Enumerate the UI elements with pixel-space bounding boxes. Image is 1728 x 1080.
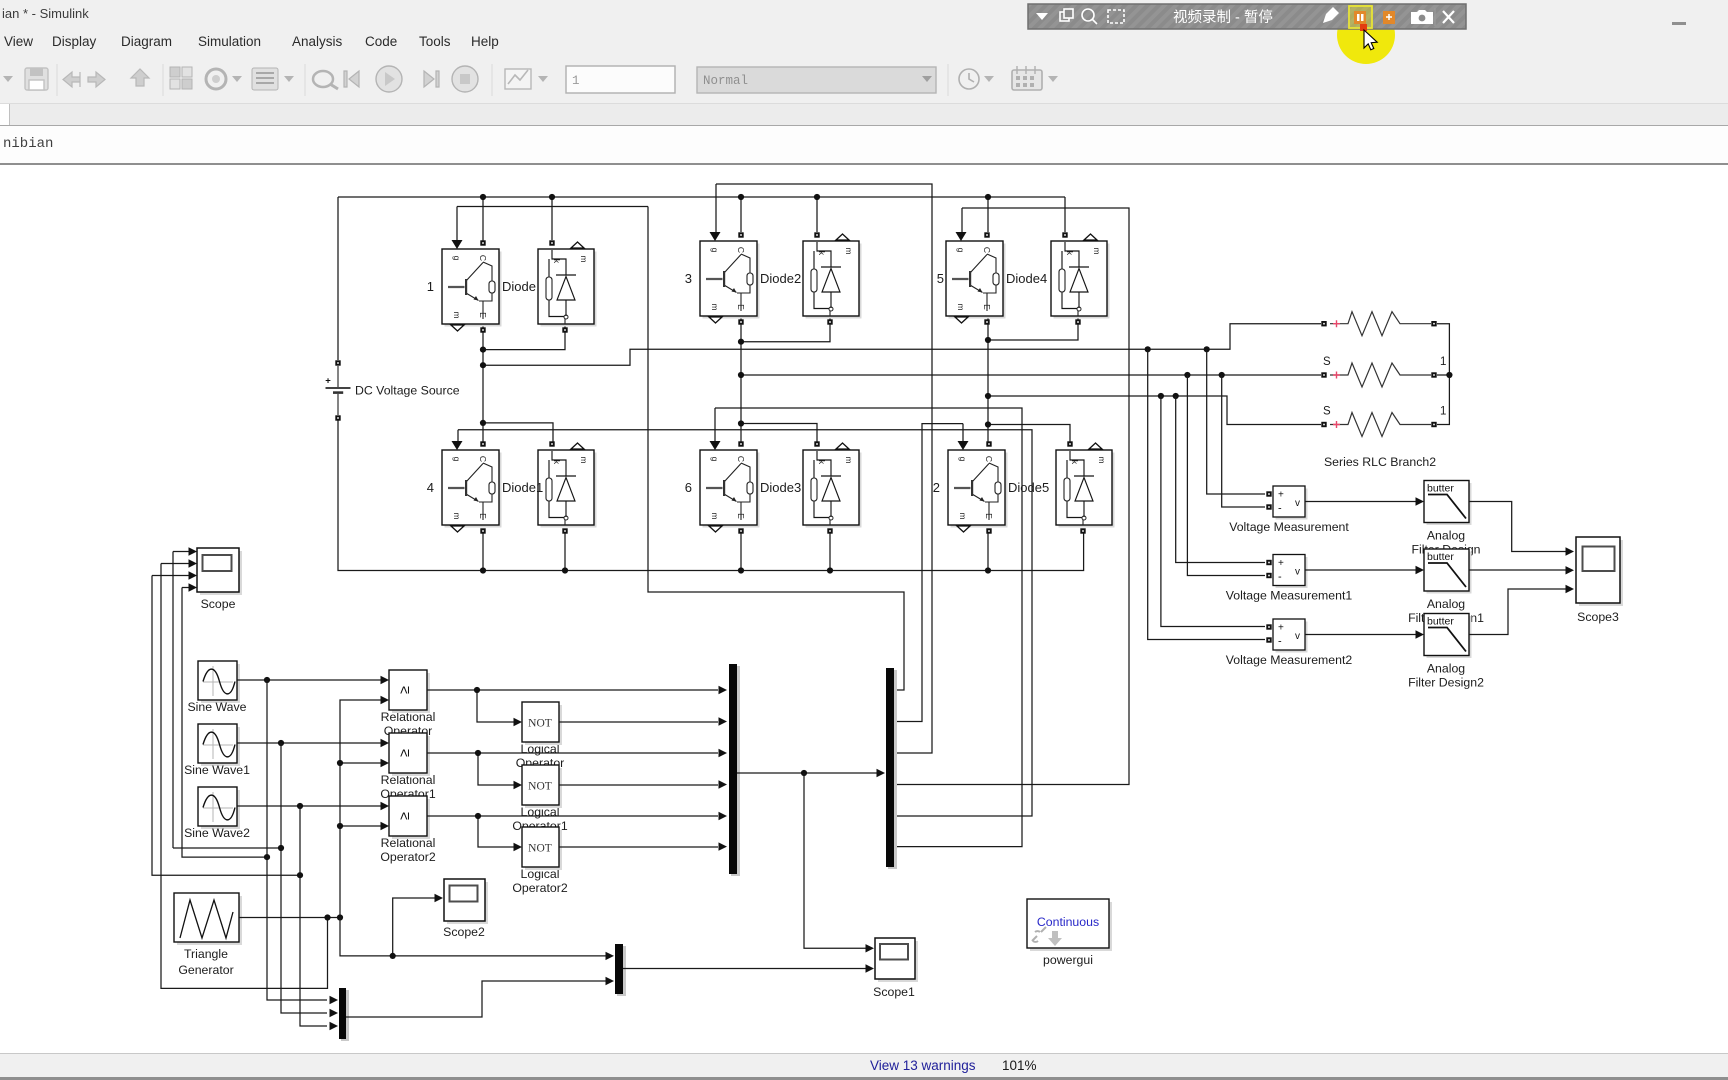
wire: Scope in4 from Sine Wave tap (182, 588, 267, 858)
wire: NOT1 out to mux in2 (559, 721, 718, 723)
wire: Diode k stub (551, 197, 553, 240)
wire: IGBT6 E drop (740, 532, 742, 571)
svg-text:Voltage Measurement1: Voltage Measurement1 (1226, 589, 1353, 603)
wire: bottom mux to center mux in2 (346, 981, 610, 1017)
diode block Diode4 (1006, 232, 1110, 324)
wire: filter1 to Scope3 in1 (1469, 502, 1568, 552)
svg-text:Diode2: Diode2 (760, 271, 801, 286)
mux bar (2-input, center) (617, 946, 626, 996)
svg-text:Diode3: Diode3 (760, 480, 801, 495)
block Voltage Measurement (1266, 486, 1307, 520)
logic gate Logical Operator (522, 702, 562, 745)
mux bar (6-input) (731, 666, 740, 876)
svg-text:powergui: powergui (1043, 953, 1093, 967)
svg-text:Continuous: Continuous (1037, 915, 1099, 929)
svg-text:Scope3: Scope3 (1577, 610, 1619, 624)
svg-text:Scope2: Scope2 (443, 925, 485, 939)
scope Scope2 (444, 879, 488, 924)
source block Sine Wave2 (198, 787, 240, 829)
svg-text:NOT: NOT (528, 843, 552, 855)
wire: IGBT3 C stub (740, 197, 742, 232)
wire: phase B column (IGBT3 E to IGBT6 C) (740, 317, 742, 443)
wire: gate bus for IGBT3 (demux out3 riser) (716, 184, 932, 753)
junctions NOT branches (474, 687, 481, 819)
wire: VM1 minus tap (1222, 375, 1265, 507)
svg-text:≥: ≥ (397, 749, 413, 757)
wire: VM1 to Analog Filter Design (1305, 501, 1418, 503)
wire: Scope in3 from Sine Wave2 tap (152, 576, 300, 876)
transistor U2 IGBT 2 (933, 441, 1008, 534)
wire: Scope in3 stub (152, 575, 191, 577)
svg-text:Operator2: Operator2 (380, 850, 436, 864)
wire: Triangle to center mux in1 (340, 918, 610, 956)
wire: mux to demux (737, 772, 882, 774)
wire: phase B to Series RLC R2 (741, 374, 1321, 376)
source block Sine Wave (198, 661, 240, 703)
wire: Scope in2 from Triangle tap (161, 564, 328, 989)
wire: Sine Wave2 branch to bottom mux in3 (300, 806, 327, 1026)
svg-text:≥: ≥ (397, 812, 413, 820)
wire: Sine Wave1 branch to bottom mux in2 (281, 743, 327, 1013)
svg-text:Scope1: Scope1 (873, 985, 915, 999)
wire: IGBT5 C stub (987, 197, 989, 232)
transistor U3 IGBT 3 (685, 232, 760, 325)
wire: Relational Operator out to mux in1 (427, 689, 718, 691)
diode block Diode5 (1008, 441, 1115, 533)
wire: filter2 to Scope3 in2 (1469, 569, 1568, 571)
svg-text:S: S (1323, 356, 1331, 368)
wire: RLC right neutral tie (1437, 324, 1449, 425)
block Relational Operator2 (389, 796, 430, 839)
wire: VM3 to Analog Filter Design2 (1305, 634, 1418, 636)
junction RLC neutral (1446, 372, 1452, 378)
wire: phase C column (IGBT5 E to IGBT2 C) (987, 317, 989, 443)
wire: IGBT1 gate feed riser from demux out1 (648, 207, 904, 691)
diode block Diode2 (760, 232, 862, 324)
svg-text:Sine Wave: Sine Wave (187, 700, 246, 714)
wire: branch to NOT2 (478, 753, 516, 785)
block Relational Operator (389, 670, 430, 713)
wire: NOT3 out to mux in6 (559, 846, 718, 848)
wire: Sine Wave branch to bottom mux in1 (267, 680, 327, 1000)
wire: phase A to Series RLC R1 (483, 324, 1321, 366)
wire: VM2 minus tap (1187, 375, 1265, 576)
wire: Diode3 a drop (bottom) (829, 532, 831, 571)
DC Voltage Source (325, 360, 460, 420)
wire: IGBT4 gate feed from demux out5 (458, 430, 1032, 816)
svg-text:Diode1: Diode1 (502, 480, 543, 495)
wire: R2 right stub (1437, 374, 1449, 376)
svg-text:1: 1 (427, 279, 434, 294)
wire: NOT2 out to mux in4 (559, 784, 718, 786)
wire: branch to NOT1 (477, 690, 516, 722)
svg-text:Scope: Scope (201, 597, 236, 611)
wire: Triangle to Relational in2 risers (340, 700, 385, 918)
logic gate Logical Operator2 (522, 827, 562, 870)
wire: Relational Operator2 out to mux in5 (427, 815, 718, 817)
wire: IGBT4 E drop (482, 532, 484, 571)
wire: branch to NOT3 (478, 816, 516, 847)
junctions phase B (738, 339, 1225, 427)
block Relational Operator1 (389, 733, 430, 776)
junction Scope2 branch (390, 953, 396, 959)
svg-text:DC Voltage Source: DC Voltage Source (355, 384, 460, 398)
svg-text:Sine Wave1: Sine Wave1 (184, 763, 250, 777)
diode block Diode1 (502, 441, 597, 533)
svg-text:Triangle: Triangle (184, 947, 228, 961)
wire: Relational Operator1 out to mux in3 (427, 752, 718, 754)
svg-text:Sine Wave2: Sine Wave2 (184, 826, 250, 840)
wire: VM3 minus tap (1148, 349, 1265, 639)
wire: phase A jog to Diode1 k (483, 423, 553, 443)
svg-text:1: 1 (1440, 406, 1446, 418)
junctions scope taps (264, 845, 303, 878)
wire: VM2 to Analog Filter Design1 (1305, 569, 1418, 571)
svg-text:5: 5 (937, 271, 944, 286)
source block Triangle Generator (174, 893, 242, 945)
source block Sine Wave1 (198, 724, 240, 766)
wire: Scope in1 stub (173, 551, 191, 553)
wire: Scope in4 stub (182, 587, 191, 589)
svg-text:Diode: Diode (502, 279, 536, 294)
junctions phase A (480, 346, 1210, 426)
svg-text:Filter Design2: Filter Design2 (1408, 676, 1484, 690)
wire: phase C jog to Diode5 k (988, 425, 1070, 444)
wire: IGBT6 gate stub (714, 408, 716, 442)
junctions on DC+ bus (480, 194, 991, 200)
block powergui (1027, 899, 1112, 951)
svg-text:Generator: Generator (178, 963, 233, 977)
scope Scope1 (875, 938, 918, 982)
wire: branch to Scope1 in1 (804, 773, 870, 948)
diode block Diode3 (760, 441, 862, 533)
wire: DC+ top bus (338, 196, 1065, 198)
wire: branch to Scope2 (393, 898, 439, 956)
svg-text:4: 4 (427, 480, 434, 495)
wire: Scope in1 from Sine Wave1 tap (173, 552, 281, 849)
svg-text:NOT: NOT (528, 781, 552, 793)
wire: VM2 plus tap (1176, 396, 1265, 563)
wire: IGBT2 gate feed from demux out2 (894, 424, 963, 722)
svg-text:Operator2: Operator2 (512, 881, 568, 895)
wire: Triangle to Relational1 in2 (340, 762, 385, 764)
wire: phase C to Series RLC R3 (988, 396, 1321, 425)
demux bar (888, 670, 897, 869)
wire: IGBT1 gate feed horizontal (457, 206, 648, 208)
block Analog Filter Design2 (1424, 614, 1472, 659)
junctions triangle risers (324, 760, 343, 921)
block Analog Filter Design1 (1424, 549, 1472, 594)
svg-text:Voltage Measurement: Voltage Measurement (1229, 520, 1349, 534)
wire: IGBT5 gate feed riser from demux out4 (894, 208, 1129, 785)
wire: center mux to Scope1 in2 (623, 968, 870, 970)
wire: IGBT2 E drop (987, 532, 989, 571)
svg-text:1: 1 (1440, 356, 1446, 368)
svg-text:S: S (1323, 406, 1331, 418)
transistor U6 IGBT 6 (685, 441, 760, 534)
wire: phase B jog to Diode3 k (741, 424, 817, 444)
scope Scope (197, 548, 242, 595)
wire: Diode4 a drop to phase C (988, 317, 1078, 340)
transistor U1 IGBT 1 (427, 240, 502, 333)
svg-text:Analog: Analog (1427, 597, 1465, 611)
wire: IGBT6 gate feed from demux out6 (715, 408, 1022, 847)
diode block Diode (502, 240, 597, 332)
wire: DC+ drop to DC Voltage Source (337, 197, 339, 360)
mouse cursor (1364, 30, 1377, 50)
junctions phase C (985, 337, 1179, 428)
wire: IGBT5 gate stub (961, 208, 963, 233)
svg-text:Analog: Analog (1427, 529, 1465, 543)
mux bar (3-input, bottom left) (341, 990, 349, 1041)
svg-text:2: 2 (933, 480, 940, 495)
svg-text:≥: ≥ (397, 686, 413, 694)
wire: Triangle Generator output (239, 917, 340, 919)
wire: Triangle to Relational2 in2 (340, 825, 385, 827)
wire: IGBT3 gate stub (715, 184, 717, 233)
wire: negative bus to Diode5 a (483, 532, 1084, 571)
junctions negative bus (480, 567, 991, 573)
resistor Series RLC Branch2 R1 (1321, 312, 1436, 336)
wire: Diode4 k stub (1064, 197, 1066, 232)
block Voltage Measurement1 (1266, 555, 1307, 589)
wire: Sine Wave to Relational Operator in1 (237, 679, 385, 681)
svg-text:NOT: NOT (528, 718, 552, 730)
wire: filter3 to Scope3 in3 (1469, 589, 1568, 635)
wire: IGBT4 gate stub (457, 430, 459, 442)
wire: VM1 plus tap (1207, 349, 1265, 494)
svg-text:Diode5: Diode5 (1008, 480, 1049, 495)
wire: Diode1 a drop (bottom) (564, 532, 566, 571)
svg-text:Series RLC Branch2: Series RLC Branch2 (1324, 455, 1436, 469)
resistor Series RLC Branch2 R2 (1321, 363, 1436, 387)
wire: Diode2 a drop to phase B (741, 317, 830, 342)
wire: phase A column (IGBT1 E to IGBT4 C) (482, 324, 484, 443)
wire: IGBT1 C stub (482, 197, 484, 243)
svg-text:6: 6 (685, 480, 692, 495)
svg-text:Voltage Measurement2: Voltage Measurement2 (1226, 653, 1353, 667)
wire: DC- drop to negative bus (338, 418, 483, 571)
transistor U5 IGBT 5 (937, 232, 1006, 325)
svg-text:+: + (325, 376, 331, 387)
logic gate Logical Operator1 (522, 765, 562, 808)
block Voltage Measurement2 (1266, 619, 1307, 653)
recording toolbar background (1028, 4, 1466, 29)
wire: Diode2 k stub (816, 197, 818, 232)
wire: Diode a drop to phase A (483, 324, 565, 350)
wire: Sine Wave2 to Relational Operator2 in1 (237, 805, 385, 807)
wire: IGBT1 gate stub (456, 207, 458, 242)
svg-text:3: 3 (685, 271, 692, 286)
yellow highlight circle (1337, 6, 1395, 64)
wire: Sine Wave1 to Relational Operator1 in1 (237, 742, 385, 744)
wire: VM3 plus tap (1161, 396, 1265, 627)
svg-text:Analog: Analog (1427, 662, 1465, 676)
svg-text:Diode4: Diode4 (1006, 271, 1047, 286)
block Analog Filter Design (1424, 481, 1472, 526)
resistor Series RLC Branch2 R3 (1321, 413, 1436, 437)
junctions at sine outputs (264, 677, 303, 809)
wire: Scope in2 stub (161, 563, 191, 565)
transistor U4 IGBT 4 (427, 441, 502, 534)
junction Scope1 branch (801, 770, 807, 776)
wire: IGBT2 gate stub (962, 424, 964, 442)
scope Scope3 (1576, 537, 1623, 606)
